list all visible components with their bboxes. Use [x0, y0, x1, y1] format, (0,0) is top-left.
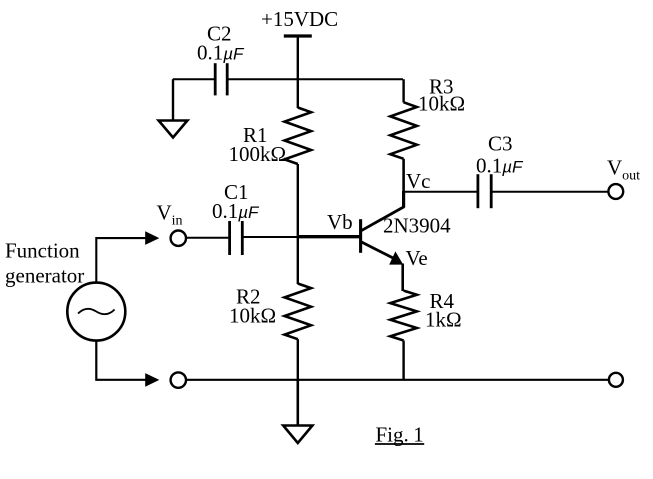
wire R4 to bottom rail: [402, 341, 404, 380]
wire R2 to bottom rail: [297, 339, 299, 380]
capacitor C1: [230, 221, 243, 255]
svg-text:0.1µF: 0.1µF: [197, 41, 245, 65]
svg-text:Ve: Ve: [406, 246, 428, 270]
capacitor C2: [215, 63, 227, 95]
wire junction to base (thick): [298, 235, 360, 238]
terminal circle Vin: [171, 231, 186, 246]
wire R1 to R2 (crosses base wire): [297, 164, 299, 284]
svg-text:0.1µF: 0.1µF: [212, 199, 260, 223]
wire top rail right segment: [227, 78, 403, 80]
wire Vc to C3: [404, 191, 477, 193]
wire generator top: [96, 238, 146, 283]
wire top rail left segment: [173, 78, 215, 80]
resistor R3: [390, 102, 417, 159]
svg-text:10kΩ: 10kΩ: [418, 92, 465, 116]
ground (bottom): [283, 380, 312, 443]
wire C3 to Vout: [492, 191, 608, 193]
svg-text:10kΩ: 10kΩ: [229, 304, 276, 328]
svg-text:Fig.: Fig.: [376, 422, 409, 446]
svg-text:+15VDC: +15VDC: [261, 7, 338, 31]
terminal circle bottom-left: [171, 372, 186, 387]
wire supply to rail: [297, 36, 299, 108]
svg-text:Vc: Vc: [406, 169, 431, 193]
wire rail corner to R3: [402, 79, 404, 102]
svg-text:1kΩ: 1kΩ: [425, 307, 462, 331]
power supply bar: [284, 34, 312, 37]
svg-text:C3: C3: [488, 131, 513, 155]
wire bottom rail: [187, 379, 609, 381]
ground (top left): [159, 79, 188, 137]
svg-text:Function: Function: [5, 239, 80, 263]
wire generator bottom: [96, 341, 147, 380]
svg-text:1: 1: [413, 422, 424, 446]
svg-text:2N3904: 2N3904: [383, 213, 451, 237]
svg-text:generator: generator: [5, 263, 84, 287]
svg-text:100kΩ: 100kΩ: [229, 142, 287, 166]
terminal circle bottom-right: [609, 373, 623, 387]
wire C1 to junction: [244, 236, 298, 238]
Fig. 1 underline: [375, 443, 424, 445]
svg-text:0.1µF: 0.1µF: [476, 153, 524, 177]
arrowhead to bottom terminal: [145, 373, 159, 387]
arrowhead to Vin: [145, 231, 159, 245]
terminal circle Vout: [608, 184, 623, 199]
svg-text:Vb: Vb: [327, 210, 353, 234]
function generator source: [67, 283, 125, 341]
wire Vin to C1: [186, 237, 228, 239]
wire R3 to Vc node: [402, 159, 405, 192]
resistor R4: [390, 291, 417, 341]
transistor Q1 2N3904: [361, 191, 405, 291]
capacitor C3: [478, 174, 491, 208]
resistor R1: [285, 108, 312, 165]
resistor R2: [285, 284, 312, 340]
